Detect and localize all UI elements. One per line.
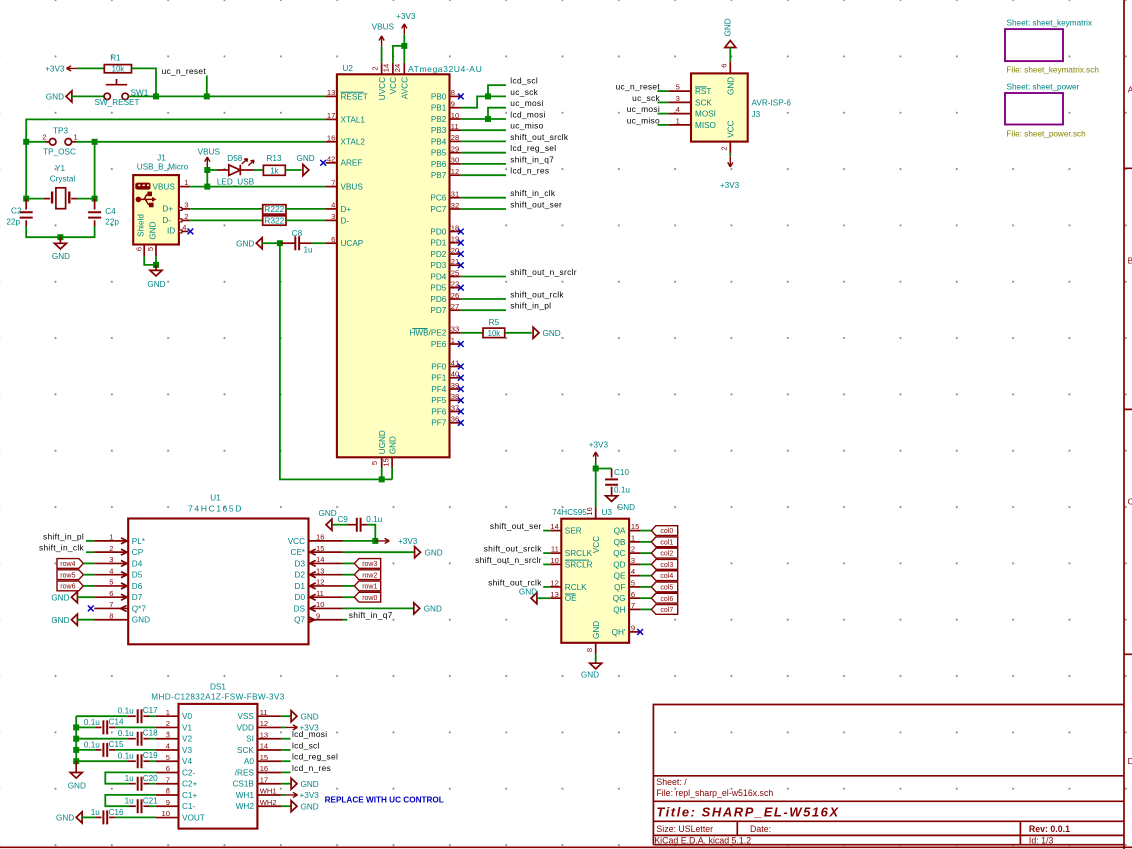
wire V0 rail	[76, 715, 127, 717]
svg-text:GND: GND	[147, 280, 165, 289]
svg-text:shift_out_srclk: shift_out_srclk	[510, 132, 569, 142]
junction	[379, 476, 385, 482]
svg-text:C18: C18	[143, 729, 158, 738]
pin 12 RCLK (U3)	[550, 579, 587, 592]
svg-text:TP3: TP3	[53, 126, 68, 135]
wire lcd_scl net (DS1)	[281, 749, 290, 751]
svg-text:Y1: Y1	[55, 164, 65, 173]
no-connect (U3 QH')	[637, 629, 643, 635]
capacitor C17	[118, 706, 158, 723]
wire to D58	[207, 169, 217, 171]
svg-text:C2-: C2-	[182, 768, 195, 777]
power VBUS (U2)	[372, 23, 395, 47]
svg-text:row0: row0	[362, 595, 377, 602]
svg-text:1u: 1u	[304, 246, 314, 255]
wire	[343, 562, 355, 564]
svg-text:28: 28	[451, 133, 459, 142]
svg-text:D+: D+	[341, 205, 352, 214]
svg-text:PD5: PD5	[430, 284, 446, 293]
svg-text:PB2: PB2	[431, 115, 447, 124]
svg-text:QF: QF	[614, 583, 625, 592]
svg-text:2: 2	[631, 545, 635, 554]
svg-text:uc_miso: uc_miso	[510, 121, 543, 131]
svg-text:3: 3	[331, 212, 335, 221]
svg-text:0.1u: 0.1u	[84, 740, 100, 749]
svg-text:QG: QG	[613, 594, 626, 603]
svg-text:D+: D+	[162, 205, 173, 214]
svg-text:C19: C19	[143, 751, 158, 760]
pin 18 PD0 (U2)	[430, 223, 460, 236]
wire	[150, 738, 156, 740]
pin QB (U3)	[614, 533, 641, 546]
svg-text:CP: CP	[132, 548, 144, 557]
svg-text:USB_B_Micro: USB_B_Micro	[137, 163, 189, 172]
capacitor C15	[76, 740, 124, 757]
svg-text:14: 14	[550, 522, 558, 531]
svg-text:2: 2	[370, 66, 379, 70]
svg-text:0.1u: 0.1u	[118, 729, 134, 738]
svg-text:1: 1	[184, 178, 188, 187]
pin 6 UCAP (U2)	[326, 235, 364, 248]
pin 3 D- (U2)	[326, 212, 350, 225]
svg-text:10: 10	[162, 809, 170, 818]
wire R5 to GND	[505, 332, 532, 334]
svg-text:shift_out_n_srclr: shift_out_n_srclr	[475, 555, 542, 565]
svg-text:12: 12	[451, 167, 459, 176]
svg-text:D0: D0	[295, 593, 306, 602]
svg-text:GND: GND	[519, 587, 537, 596]
pin 33 HWB/PE2 (U2)	[409, 325, 460, 338]
svg-text:PB0: PB0	[431, 92, 447, 101]
svg-text:RCLK: RCLK	[565, 583, 587, 592]
svg-text:11: 11	[316, 589, 324, 598]
svg-text:A0: A0	[244, 757, 254, 766]
svg-text:GND: GND	[236, 239, 254, 248]
power +3V3 (J3)	[720, 156, 740, 190]
wire D+ net (MCU side)	[286, 208, 326, 210]
svg-text:shift_in_pl: shift_in_pl	[43, 531, 84, 541]
svg-text:PF7: PF7	[431, 419, 446, 428]
global label row1	[354, 581, 380, 591]
pin 13 D2 (U1)	[295, 566, 343, 579]
svg-text:SRCLK: SRCLK	[565, 549, 593, 558]
svg-text:0.1u: 0.1u	[118, 707, 134, 716]
svg-text:GND: GND	[617, 503, 635, 512]
svg-text:col3: col3	[660, 562, 673, 569]
svg-text:V2: V2	[182, 735, 192, 744]
svg-text:2: 2	[720, 146, 729, 150]
no-connect	[458, 285, 464, 291]
wire GND to C8	[262, 242, 277, 244]
pin 27 PD7 (U2)	[430, 302, 460, 315]
svg-text:PL*: PL*	[132, 537, 146, 546]
svg-text:PD3: PD3	[430, 261, 446, 270]
power GND (DS1 CS1B)	[291, 778, 319, 789]
svg-text:GND: GND	[51, 616, 69, 625]
global label col1	[651, 537, 677, 547]
junction	[92, 196, 98, 202]
svg-text:16: 16	[260, 764, 268, 773]
svg-text:1: 1	[74, 132, 78, 141]
resistor R13	[263, 154, 285, 175]
wire shift_out_ser net	[461, 208, 506, 210]
pin 4 V3 (DS1)	[156, 742, 193, 755]
svg-text:uc_mosi: uc_mosi	[627, 104, 660, 114]
svg-text:14: 14	[260, 742, 268, 751]
sheet sheet_power	[1005, 83, 1086, 139]
svg-text:shift_in_q7: shift_in_q7	[510, 154, 554, 164]
wire shift_out_n_srclr net	[461, 276, 506, 278]
svg-text:1: 1	[631, 533, 635, 542]
svg-text:D5: D5	[132, 571, 143, 580]
pin 12 D1 (U1)	[295, 578, 343, 591]
svg-text:12: 12	[550, 579, 558, 588]
wire VCC to +3V3	[343, 540, 376, 542]
title block	[653, 705, 1124, 846]
pin 6 D7 (U1)	[94, 589, 142, 602]
global label col3	[651, 559, 677, 569]
svg-text:5: 5	[146, 247, 155, 251]
svg-text:File: repl_sharp_el-w516x.sch: File: repl_sharp_el-w516x.sch	[656, 788, 773, 798]
svg-text:uc_n_reset: uc_n_reset	[616, 82, 661, 92]
svg-text:GND: GND	[149, 221, 158, 239]
svg-text:3: 3	[631, 556, 635, 565]
wire crystal right rail	[94, 142, 96, 199]
svg-text:U1: U1	[210, 494, 221, 503]
power GND (C9)	[318, 509, 336, 530]
svg-text:15: 15	[316, 544, 324, 553]
svg-text:VCC: VCC	[592, 536, 601, 553]
resistor R2 22 (R222)	[263, 204, 286, 214]
svg-text:PC7: PC7	[430, 205, 446, 214]
wire GND rail to MCU bottom	[280, 243, 382, 479]
wire J1 shield+gnd	[144, 256, 156, 265]
power GND (R13)	[296, 154, 314, 175]
svg-text:22p: 22p	[105, 218, 119, 227]
wire VBUS net	[190, 186, 325, 188]
svg-text:10k: 10k	[488, 329, 501, 338]
svg-text:D: D	[1128, 756, 1132, 766]
svg-text:GND: GND	[68, 782, 86, 791]
svg-text:11: 11	[451, 122, 459, 131]
wire uc_sck to J3	[658, 101, 669, 103]
junction	[92, 139, 98, 145]
no-connect	[458, 375, 464, 381]
wire lcd_n_res net	[461, 174, 506, 176]
svg-text:LED_USB: LED_USB	[217, 177, 255, 186]
no-connect (J1 ID)	[188, 229, 194, 235]
svg-text:J3: J3	[752, 110, 761, 119]
wire	[77, 619, 94, 621]
pin VCC (14)	[382, 63, 399, 94]
wire CE* to GND	[343, 551, 415, 553]
svg-text:0.1u: 0.1u	[366, 515, 382, 524]
svg-text:/RES: /RES	[235, 768, 255, 777]
wire shift_out_srclk net	[461, 140, 506, 142]
capacitor C4	[88, 199, 119, 227]
svg-text:+3V3: +3V3	[720, 181, 740, 190]
svg-text:VBUS: VBUS	[372, 23, 395, 32]
pin 30 PB6 (U2)	[431, 156, 461, 169]
resistor R3 22 (R322)	[263, 215, 286, 225]
wire	[86, 540, 94, 542]
svg-text:SCK: SCK	[695, 98, 712, 107]
svg-text:29: 29	[451, 145, 459, 154]
svg-text:PB7: PB7	[431, 171, 447, 180]
wire	[86, 551, 94, 553]
svg-text:22: 22	[451, 280, 459, 289]
svg-text:uc_sck: uc_sck	[510, 87, 538, 97]
svg-text:row3: row3	[362, 561, 377, 568]
svg-text:9: 9	[166, 798, 170, 807]
connector J3 AVR-ISP-6	[669, 62, 792, 153]
no-connect (U1 Q*7)	[88, 606, 94, 612]
svg-text:QH': QH'	[612, 628, 626, 637]
junction	[73, 736, 79, 742]
svg-text:11: 11	[260, 708, 268, 717]
wire	[115, 816, 156, 818]
svg-text:13: 13	[316, 566, 324, 575]
pin 16 VCC (U1)	[288, 533, 343, 546]
test point TP3 TP_OSC	[26, 126, 94, 156]
svg-text:UCAP: UCAP	[341, 239, 364, 248]
svg-text:16: 16	[316, 533, 324, 542]
svg-text:row4: row4	[60, 561, 75, 568]
svg-text:C2: C2	[11, 206, 22, 215]
capacitor C20	[105, 772, 158, 790]
wire lcd_n_res net (DS1)	[281, 771, 290, 773]
pin 14 SCK (DS1)	[237, 742, 281, 755]
svg-text:Sheet: sheet_power: Sheet: sheet_power	[1007, 83, 1080, 92]
svg-text:0.1u: 0.1u	[84, 718, 100, 727]
no-connect	[458, 386, 464, 392]
svg-text:9: 9	[316, 611, 320, 620]
svg-text:GND: GND	[301, 802, 319, 811]
svg-text:UGND: UGND	[378, 430, 387, 454]
svg-text:U2: U2	[343, 64, 354, 73]
svg-text:QB: QB	[614, 538, 626, 547]
pin 13 RESET (U2)	[326, 88, 368, 101]
svg-text:D4: D4	[132, 559, 143, 568]
wire XTAL1 net	[26, 119, 325, 198]
svg-text:6: 6	[134, 247, 143, 251]
svg-text:SRCLR: SRCLR	[565, 560, 593, 569]
pin 16 /RES (DS1)	[235, 764, 281, 777]
ic DS1 MHD-C12832A1Z	[151, 682, 284, 828]
svg-text:B: B	[1128, 256, 1132, 266]
label uc_n_reset	[162, 66, 207, 76]
svg-text:9: 9	[631, 624, 635, 633]
pin 12 PB7 (U2)	[431, 167, 461, 180]
svg-text:V0: V0	[182, 712, 192, 721]
crystal Y1	[26, 164, 94, 209]
global label row5	[57, 570, 83, 580]
svg-text:PF0: PF0	[431, 362, 446, 371]
svg-text:6: 6	[720, 63, 729, 67]
no-connect	[458, 420, 464, 426]
svg-text:Shield: Shield	[137, 214, 146, 237]
pin 3 V2 (DS1)	[156, 730, 193, 743]
svg-text:GND: GND	[425, 548, 443, 557]
wire	[543, 563, 550, 565]
svg-text:13: 13	[550, 590, 558, 599]
wire C4 to GND	[60, 226, 94, 237]
wire	[115, 749, 156, 751]
svg-text:8: 8	[585, 648, 594, 652]
resistor R1	[104, 54, 131, 74]
wire PB2 net	[461, 118, 506, 120]
power +3V3 (R1 pullup)	[45, 65, 77, 74]
pin 11 PB3 (U2)	[431, 122, 461, 135]
svg-text:31: 31	[451, 190, 459, 199]
svg-text:OE: OE	[565, 594, 577, 603]
wire WH1 to +3V3	[281, 794, 285, 796]
svg-text:D1: D1	[295, 582, 306, 591]
svg-text:V4: V4	[182, 757, 192, 766]
global label col6	[651, 593, 677, 603]
svg-text:D6: D6	[132, 582, 143, 591]
capacitor C19	[76, 751, 158, 768]
junction	[277, 240, 283, 246]
pin 10 SRCLR (U3)	[550, 556, 592, 569]
pin UGND (5)	[370, 430, 387, 467]
svg-text:GND: GND	[51, 593, 69, 602]
svg-text:shift_out_ser: shift_out_ser	[510, 199, 562, 209]
pin GND (15)	[381, 436, 397, 467]
svg-text:5: 5	[166, 753, 170, 762]
svg-text:shift_in_q7: shift_in_q7	[349, 610, 393, 620]
svg-text:GND: GND	[301, 780, 319, 789]
svg-text:QH: QH	[613, 605, 625, 614]
svg-text:J1: J1	[157, 154, 166, 163]
wire col5 net	[640, 586, 651, 588]
svg-text:C21: C21	[143, 796, 158, 805]
power GND (crystal)	[52, 237, 70, 261]
power +3V3 (U2)	[396, 12, 416, 34]
svg-text:9: 9	[451, 100, 455, 109]
svg-text:CS1B: CS1B	[233, 780, 255, 789]
pin 29 PB5 (U2)	[431, 145, 461, 158]
svg-text:C15: C15	[109, 740, 124, 749]
svg-text:AREF: AREF	[341, 159, 363, 168]
wire GND to J3	[729, 48, 731, 62]
page frame bottom border	[0, 846, 1132, 848]
svg-text:lcd_mosi: lcd_mosi	[292, 729, 327, 739]
svg-text:32: 32	[451, 201, 459, 210]
pin QD (U3)	[613, 556, 640, 569]
svg-text:lcd_scl: lcd_scl	[292, 740, 320, 750]
global label col4	[651, 571, 677, 581]
pin 1 PE6 (U2)	[431, 336, 461, 349]
junction	[73, 724, 79, 730]
power GND (U1 D7)	[51, 592, 77, 603]
svg-text:A: A	[1128, 85, 1132, 95]
pin 25 PD4 (U2)	[430, 268, 460, 281]
svg-text:15: 15	[381, 458, 390, 466]
svg-text:UVCC: UVCC	[378, 77, 387, 100]
svg-text:Q7: Q7	[294, 616, 305, 625]
svg-text:shift_out_rclk: shift_out_rclk	[510, 289, 564, 299]
global label col7	[651, 605, 677, 615]
pin 21 PD3 (U2)	[430, 257, 460, 270]
capacitor C14	[76, 718, 124, 735]
power GND (C10)	[606, 496, 636, 512]
junction	[593, 466, 599, 472]
wire WH2 to GND	[281, 805, 291, 807]
svg-text:ATmega32U4-AU: ATmega32U4-AU	[408, 64, 482, 74]
svg-text:7: 7	[109, 600, 113, 609]
global label col2	[651, 548, 677, 558]
svg-text:uc_sck: uc_sck	[632, 93, 660, 103]
svg-text:VBUS: VBUS	[198, 147, 221, 156]
svg-text:shift_in_pl: shift_in_pl	[510, 301, 551, 311]
svg-text:QD: QD	[613, 560, 625, 569]
svg-text:C2+: C2+	[182, 780, 197, 789]
pin QG (U3)	[613, 590, 641, 603]
wire	[150, 715, 156, 717]
wire +3V3 to R1	[77, 67, 104, 69]
wire SW1 to RESET pin	[128, 95, 325, 97]
svg-text:36: 36	[451, 415, 459, 424]
svg-text:20: 20	[451, 246, 459, 255]
capacitor C8	[280, 229, 313, 254]
svg-text:C4: C4	[105, 207, 116, 216]
pin 3 D4 (U1)	[94, 555, 142, 568]
svg-text:WH2: WH2	[236, 802, 255, 811]
svg-text:PB3: PB3	[431, 126, 447, 135]
ic U3 74HC595	[552, 507, 629, 654]
wire GND to SW1	[72, 95, 104, 97]
svg-text:XTAL2: XTAL2	[341, 138, 366, 147]
wire shift_in_clk net	[461, 197, 506, 199]
svg-text:12: 12	[260, 719, 268, 728]
page frame right border	[1124, 0, 1132, 849]
svg-text:QE: QE	[614, 572, 626, 581]
svg-text:Title: SHARP_EL-W516X: Title: SHARP_EL-W516X	[656, 805, 839, 820]
pin 5 V4 (DS1)	[156, 753, 193, 766]
global label col5	[651, 582, 677, 592]
svg-text:40: 40	[451, 370, 459, 379]
svg-text:V1: V1	[182, 723, 192, 732]
svg-text:4: 4	[109, 566, 113, 575]
svg-text:6: 6	[109, 589, 113, 598]
pin 7 VBUS (U2)	[326, 178, 364, 191]
wire	[343, 574, 355, 576]
svg-text:uc_n_reset: uc_n_reset	[162, 66, 207, 76]
no-connect	[458, 94, 464, 100]
pin AVCC (24)	[393, 63, 410, 99]
wire	[543, 586, 550, 588]
svg-text:6: 6	[166, 764, 170, 773]
pin 11 SRCLK (U3)	[550, 545, 592, 558]
svg-text:lcd_n_res: lcd_n_res	[292, 763, 331, 773]
svg-text:WH1: WH1	[236, 791, 255, 800]
svg-text:GND: GND	[543, 329, 561, 338]
wire D+ net (J1 side)	[190, 208, 263, 210]
svg-text:GND: GND	[296, 154, 314, 163]
wire	[83, 585, 94, 587]
wire OE to GND	[537, 597, 550, 599]
svg-text:GND: GND	[318, 509, 336, 518]
svg-text:GND: GND	[388, 436, 397, 454]
svg-text:PD0: PD0	[430, 227, 446, 236]
junction	[204, 184, 210, 190]
svg-text:3: 3	[676, 94, 680, 103]
svg-text:30: 30	[451, 156, 459, 165]
wire col7 net	[640, 608, 651, 610]
svg-text:R13: R13	[266, 154, 281, 163]
wire +3V3 to AVCC/VCC	[403, 34, 405, 63]
